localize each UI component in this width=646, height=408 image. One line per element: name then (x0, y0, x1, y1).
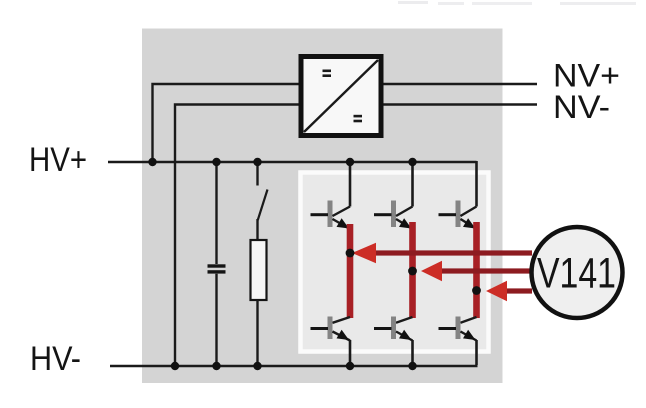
leg 3 collector wire from HV+ corner (475, 161, 478, 207)
resistor branch wire lower (256, 300, 258, 366)
capacitor C1 branch wire lower (215, 274, 217, 366)
junction dot HV+ / leg2 (408, 158, 416, 166)
wire: NV- output (381, 103, 537, 105)
leg 2 collector wire from HV+ (411, 162, 414, 207)
resistor R1 (251, 240, 267, 300)
junction dot phase V (408, 267, 417, 276)
capacitor C1 plates (208, 264, 226, 273)
red arrow 3 head (486, 281, 507, 301)
wire: HV+ junction to DC/DC input (153, 84, 302, 162)
red arrow 3 shaft (504, 288, 532, 293)
capacitor C1 branch wire upper (215, 162, 217, 264)
IGBT Q1 (top leg1) (311, 201, 351, 230)
svg-text:HV-: HV- (30, 340, 81, 378)
wire: switch to resistor (256, 219, 258, 240)
cropped header text remnant (398, 1, 636, 5)
red arrow 1 head (352, 243, 376, 263)
svg-text:NV-: NV- (553, 89, 610, 125)
leg 2 emitter wire to HV- (411, 340, 414, 366)
wire: HV+ rail (108, 161, 477, 163)
IGBT Q5 (top leg3) (439, 201, 477, 230)
DC symbol (lower) (354, 115, 363, 122)
junction dot HV- / leg2 (408, 362, 416, 370)
wire: HV- junction to DC/DC input (175, 105, 301, 367)
junction dot HV- / capacitor (212, 362, 220, 370)
junction dot HV- / resistor (253, 362, 261, 370)
switch S1 branch wire upper (256, 162, 258, 186)
red arrow 1 shaft (374, 250, 532, 255)
power module enclosure (gray box) (142, 29, 503, 384)
leg 1 collector wire from HV+ (349, 162, 352, 207)
inverter bridge inner box (301, 173, 489, 352)
junction dot HV- / DCDC (171, 362, 179, 370)
switch S1 blade (258, 190, 268, 221)
junction dot HV+ / DCDC (148, 158, 156, 166)
phase V conductor (red) leg2 (409, 222, 416, 318)
leg 3 emitter wire to HV- corner (475, 340, 478, 365)
DC/DC converter A1 box (301, 57, 381, 136)
junction dot HV+ / capacitor (212, 158, 220, 166)
IGBT Q6 (bottom leg3) (439, 317, 477, 341)
phase W conductor (red) leg3 (473, 222, 480, 318)
svg-text:HV+: HV+ (29, 141, 87, 179)
red arrow 2 shaft (440, 268, 532, 273)
leg 1 emitter wire to HV- (349, 340, 352, 366)
IGBT Q2 (bottom leg1) (311, 317, 351, 341)
DC symbol (upper) (323, 70, 332, 78)
red arrow 2 head (421, 261, 442, 281)
wire: NV+ output (381, 83, 537, 85)
junction dot phase W (472, 286, 481, 295)
IGBT Q4 (bottom leg2) (374, 317, 413, 341)
junction dot HV+ / switch (253, 158, 261, 166)
junction dot HV+ / leg1 (346, 158, 354, 166)
wire: HV- rail (110, 365, 478, 367)
junction dot phase U (346, 249, 355, 258)
svg-text:V141: V141 (537, 250, 616, 298)
phase U conductor (red) leg1 (347, 224, 354, 318)
motor V141 circle (532, 227, 623, 318)
junction dot HV- / leg1 (346, 362, 354, 370)
IGBT Q3 (top leg2) (374, 201, 413, 230)
